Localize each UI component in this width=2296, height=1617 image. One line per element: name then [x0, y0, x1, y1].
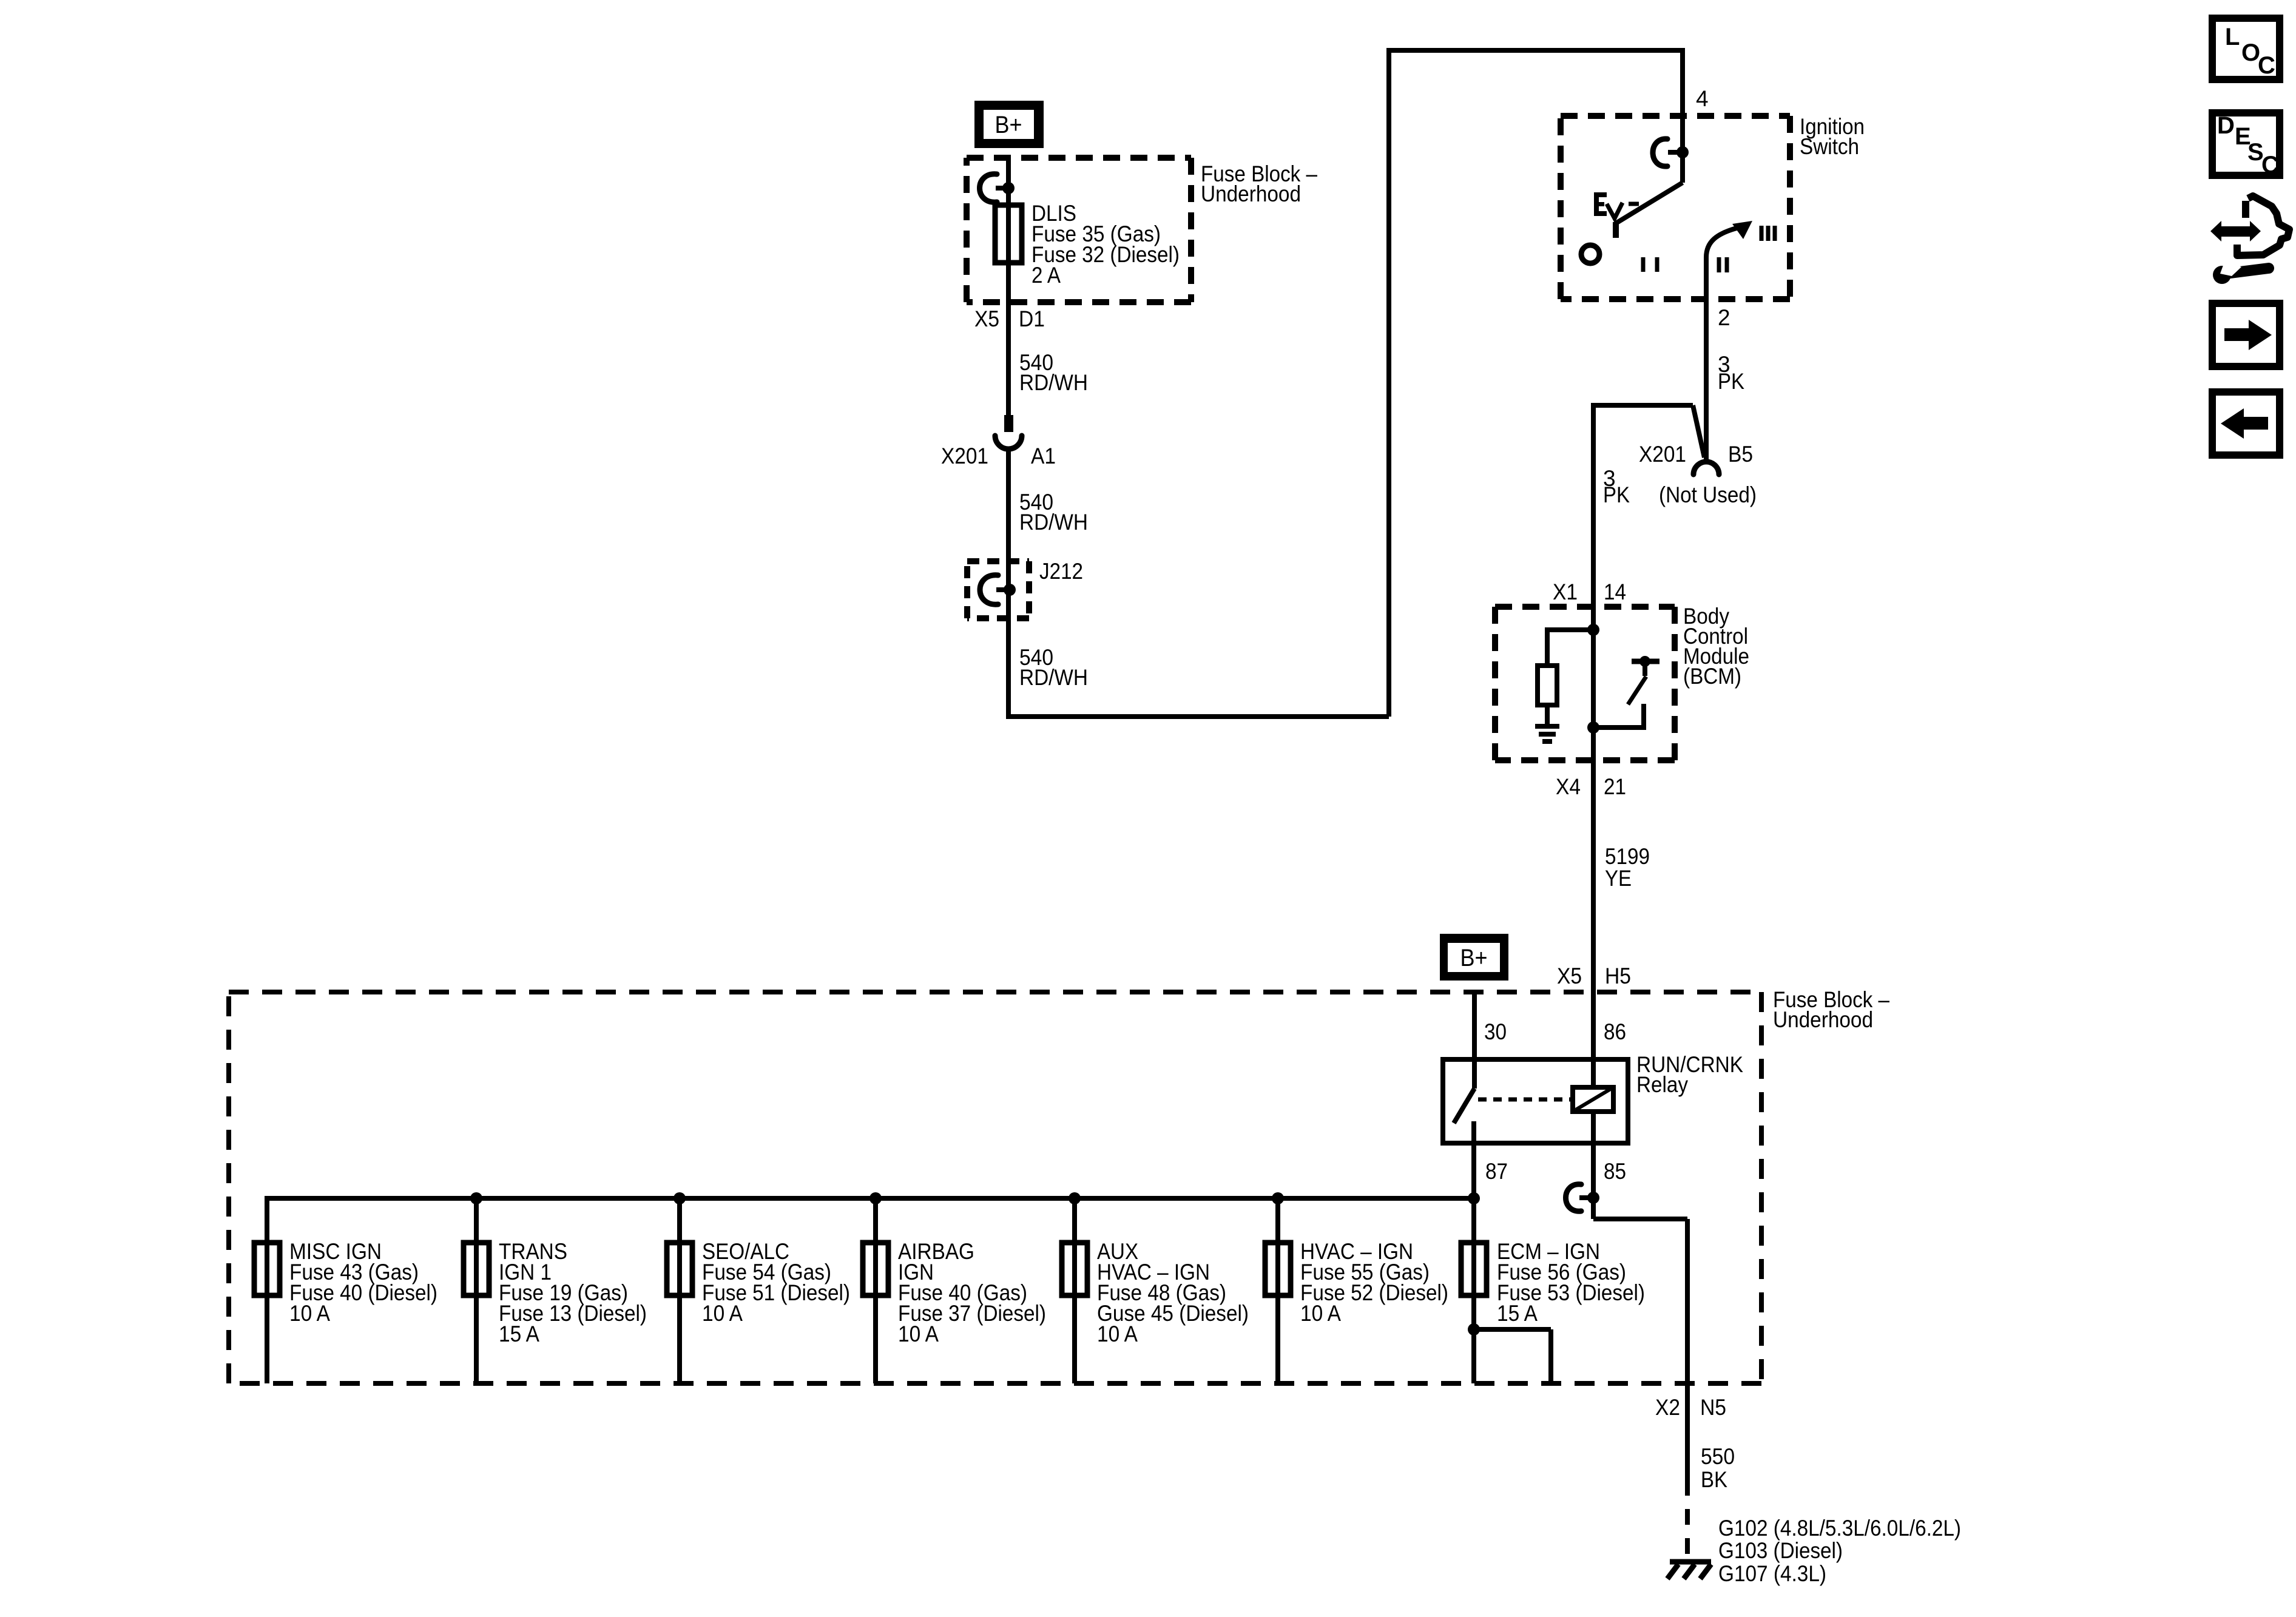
svg-text:X201: X201	[941, 444, 988, 468]
pin labels 87 / 85	[1485, 1159, 1626, 1184]
wire label 550 BK	[1701, 1444, 1735, 1492]
fuse AUX HVAC IGN branch	[1062, 1192, 1249, 1383]
svg-text:X201: X201	[1639, 442, 1686, 467]
svg-text:Underhood: Underhood	[1773, 1007, 1873, 1032]
pin labels X2 / N5	[1655, 1395, 1726, 1420]
svg-text:15 A: 15 A	[1497, 1301, 1538, 1326]
junction node	[1002, 182, 1015, 194]
wire: below X201 connector	[1006, 449, 1011, 719]
pin labels 30 / 86	[1484, 1019, 1626, 1044]
label: DLIS fuse	[1032, 201, 1180, 288]
ignition position ticks II (right)	[1719, 257, 1727, 272]
relay coil box	[1573, 1087, 1613, 1112]
junction node ignition	[1676, 146, 1689, 158]
ignition switch movable arm	[1616, 183, 1683, 223]
junction node below ECM fuse	[1468, 1323, 1480, 1335]
svg-text:D: D	[2217, 112, 2235, 139]
pin labels X1 / 14	[1553, 579, 1626, 604]
wire: B+ into fuse block down through DLIS fuse	[1006, 159, 1011, 415]
sidebar icon LOC	[2212, 18, 2280, 79]
svg-text:10 A: 10 A	[898, 1322, 939, 1346]
RUN/CRNK relay box	[1443, 1059, 1628, 1143]
fuse TRANS IGN 1 branch	[464, 1192, 647, 1383]
svg-text:H5: H5	[1605, 964, 1631, 988]
svg-text:C: C	[2261, 152, 2279, 178]
wire: relay pin 85 down	[1591, 1112, 1596, 1219]
svg-text:A1: A1	[1031, 444, 1056, 468]
svg-text:B5: B5	[1728, 442, 1753, 467]
fuse ECM IGN branch	[1461, 1239, 1645, 1383]
wire: ECM fuse side branch	[1474, 1329, 1551, 1383]
ignition arrow v with dash	[1607, 203, 1622, 218]
pin labels X201 / A1	[941, 444, 1056, 468]
ignition position glyph E	[1594, 192, 1607, 216]
svg-text:G103 (Diesel): G103 (Diesel)	[1718, 1538, 1843, 1563]
svg-text:B+: B+	[1460, 945, 1488, 971]
junction node bus/87	[1468, 1192, 1480, 1204]
B+ power symbol (feeds RUN/CRNK relay pin 30)	[1440, 934, 1508, 981]
connector clip at ignition pin 4	[1653, 139, 1667, 166]
fuse block underhood (bottom) dashed box	[229, 992, 1761, 1383]
label: Fuse Block - Underhood (top)	[1201, 161, 1317, 206]
pin labels X5 / H5	[1557, 964, 1631, 988]
svg-text:Switch: Switch	[1800, 134, 1859, 159]
wire: long feed loop to ignition switch pin 4	[1008, 48, 1683, 717]
svg-text:21: 21	[1604, 774, 1626, 799]
BCM internal pull-up branch	[1547, 627, 1593, 666]
svg-text:J212: J212	[1039, 559, 1083, 584]
B+ power symbol (top, feeds DLIS fuse)	[974, 101, 1044, 148]
svg-text:PK: PK	[1718, 369, 1744, 394]
svg-text:N5: N5	[1700, 1395, 1726, 1420]
svg-text:RD/WH: RD/WH	[1019, 665, 1088, 690]
svg-text:86: 86	[1604, 1019, 1626, 1044]
junction node BCM bottom	[1587, 721, 1599, 734]
sidebar icon back arrow	[2212, 392, 2280, 455]
label: Body Control Module (BCM)	[1683, 604, 1749, 689]
fuse HVAC IGN branch	[1265, 1192, 1448, 1383]
svg-text:5199: 5199	[1605, 844, 1650, 869]
svg-text:YE: YE	[1605, 866, 1632, 891]
junction node J212	[1004, 584, 1016, 596]
svg-text:BK: BK	[1701, 1467, 1727, 1492]
svg-text:(Not Used): (Not Used)	[1659, 482, 1757, 507]
svg-text:PK: PK	[1603, 482, 1630, 507]
fuse block underhood (top) dashed box	[967, 158, 1191, 302]
svg-text:G107 (4.3L): G107 (4.3L)	[1718, 1561, 1826, 1586]
svg-text:2 A: 2 A	[1032, 263, 1061, 288]
ignition start arm curve with arrowhead	[1706, 228, 1737, 257]
sidebar icon hand with arrow and wrench	[2210, 196, 2289, 284]
fuse AIRBAG IGN branch	[863, 1192, 1046, 1383]
svg-text:G102 (4.8L/5.3L/6.0L/6.2L): G102 (4.8L/5.3L/6.0L/6.2L)	[1718, 1516, 1961, 1541]
ignition position ticks III	[1761, 226, 1775, 241]
fuse MISC IGN branch	[254, 1196, 437, 1383]
junction node BCM top	[1587, 624, 1599, 636]
inline connector X201 terminal A1	[995, 415, 1022, 449]
ignition feed bus inside fuse block	[267, 1196, 1474, 1201]
svg-text:Underhood: Underhood	[1201, 181, 1301, 206]
wire label 3 PK (right)	[1718, 352, 1744, 394]
connector clip at DLIS fuse feed	[980, 174, 998, 202]
fuse DLIS (Fuse 35 Gas / Fuse 32 Diesel, 2 A)	[995, 205, 1022, 263]
svg-text:4: 4	[1696, 86, 1709, 111]
labels X201 / B5	[1639, 442, 1753, 467]
wire: B+ to relay pin 30	[1472, 991, 1477, 1089]
sidebar icon DESC	[2212, 112, 2280, 178]
svg-text:X5: X5	[1557, 964, 1582, 988]
wire label 5199 YE	[1605, 844, 1650, 891]
wire label 540 RD/WH (2)	[1019, 490, 1088, 535]
wire: dashed ground lead	[1685, 1480, 1690, 1557]
body control module dashed box	[1495, 607, 1675, 760]
svg-text:X4: X4	[1556, 774, 1581, 799]
svg-text:10 A: 10 A	[702, 1301, 743, 1326]
label: RUN/CRNK Relay	[1636, 1052, 1743, 1097]
junction node relay 85	[1587, 1192, 1599, 1204]
ignition switch dashed box	[1561, 116, 1790, 299]
svg-text:10 A: 10 A	[1300, 1301, 1341, 1326]
svg-text:2: 2	[1718, 305, 1730, 330]
splice J212 dashed box	[967, 561, 1029, 618]
svg-text:15 A: 15 A	[499, 1322, 539, 1346]
ignition LOCK position circle	[1581, 245, 1599, 263]
wire: branch to BCM	[1591, 403, 1704, 1087]
BCM internal switch contact	[1632, 659, 1660, 664]
wire: relay 85 to ground lead	[1593, 1219, 1687, 1480]
pin labels X5 / D1	[974, 306, 1045, 331]
connector clip inside J212	[980, 575, 998, 604]
wire label 540 RD/WH (3)	[1019, 645, 1088, 690]
svg-text:X2: X2	[1655, 1395, 1680, 1420]
wire: ignition pin 2 down	[1704, 257, 1709, 459]
ground (BCM internal)	[1535, 726, 1559, 741]
label: Ignition Switch	[1800, 114, 1865, 159]
relay actuation dashed link	[1478, 1098, 1572, 1102]
svg-text:C: C	[2258, 52, 2275, 79]
resistor inside BCM	[1538, 666, 1557, 705]
wire label 3 PK (left)	[1603, 466, 1630, 507]
svg-text:10 A: 10 A	[289, 1301, 330, 1326]
svg-text:X1: X1	[1553, 579, 1578, 604]
svg-text:10 A: 10 A	[1097, 1322, 1138, 1346]
relay switch blade	[1454, 1089, 1474, 1123]
svg-text:85: 85	[1604, 1159, 1626, 1184]
svg-text:L: L	[2225, 24, 2240, 50]
pin labels X4 / 21	[1556, 774, 1626, 799]
labels: ground names	[1718, 1516, 1961, 1586]
connector X201 terminal B5 (not used)	[1693, 462, 1719, 474]
BCM switch blade	[1628, 677, 1646, 704]
svg-text:87: 87	[1485, 1159, 1508, 1184]
relay output stub to pin 87	[1471, 1121, 1476, 1243]
svg-text:(BCM): (BCM)	[1683, 664, 1741, 689]
svg-text:30: 30	[1484, 1019, 1507, 1044]
ground G102/G103/G107	[1667, 1562, 1711, 1579]
svg-text:X5: X5	[974, 306, 999, 331]
svg-text:RD/WH: RD/WH	[1019, 510, 1088, 535]
connector clip at relay 85	[1566, 1184, 1582, 1211]
svg-text:Relay: Relay	[1636, 1072, 1688, 1097]
sidebar icon forward arrow	[2212, 303, 2280, 366]
svg-text:RD/WH: RD/WH	[1019, 370, 1088, 395]
svg-text:550: 550	[1701, 1444, 1735, 1469]
svg-text:B+: B+	[995, 112, 1022, 138]
label: Fuse Block - Underhood (bottom)	[1773, 987, 1889, 1032]
BCM switch output wire	[1593, 704, 1644, 730]
fuse SEO/ALC branch	[667, 1192, 850, 1383]
svg-text:14: 14	[1604, 579, 1626, 604]
ignition position ticks II (left)	[1643, 257, 1657, 272]
wire label 540 RD/WH (1)	[1019, 350, 1088, 395]
svg-text:D1: D1	[1019, 306, 1045, 331]
